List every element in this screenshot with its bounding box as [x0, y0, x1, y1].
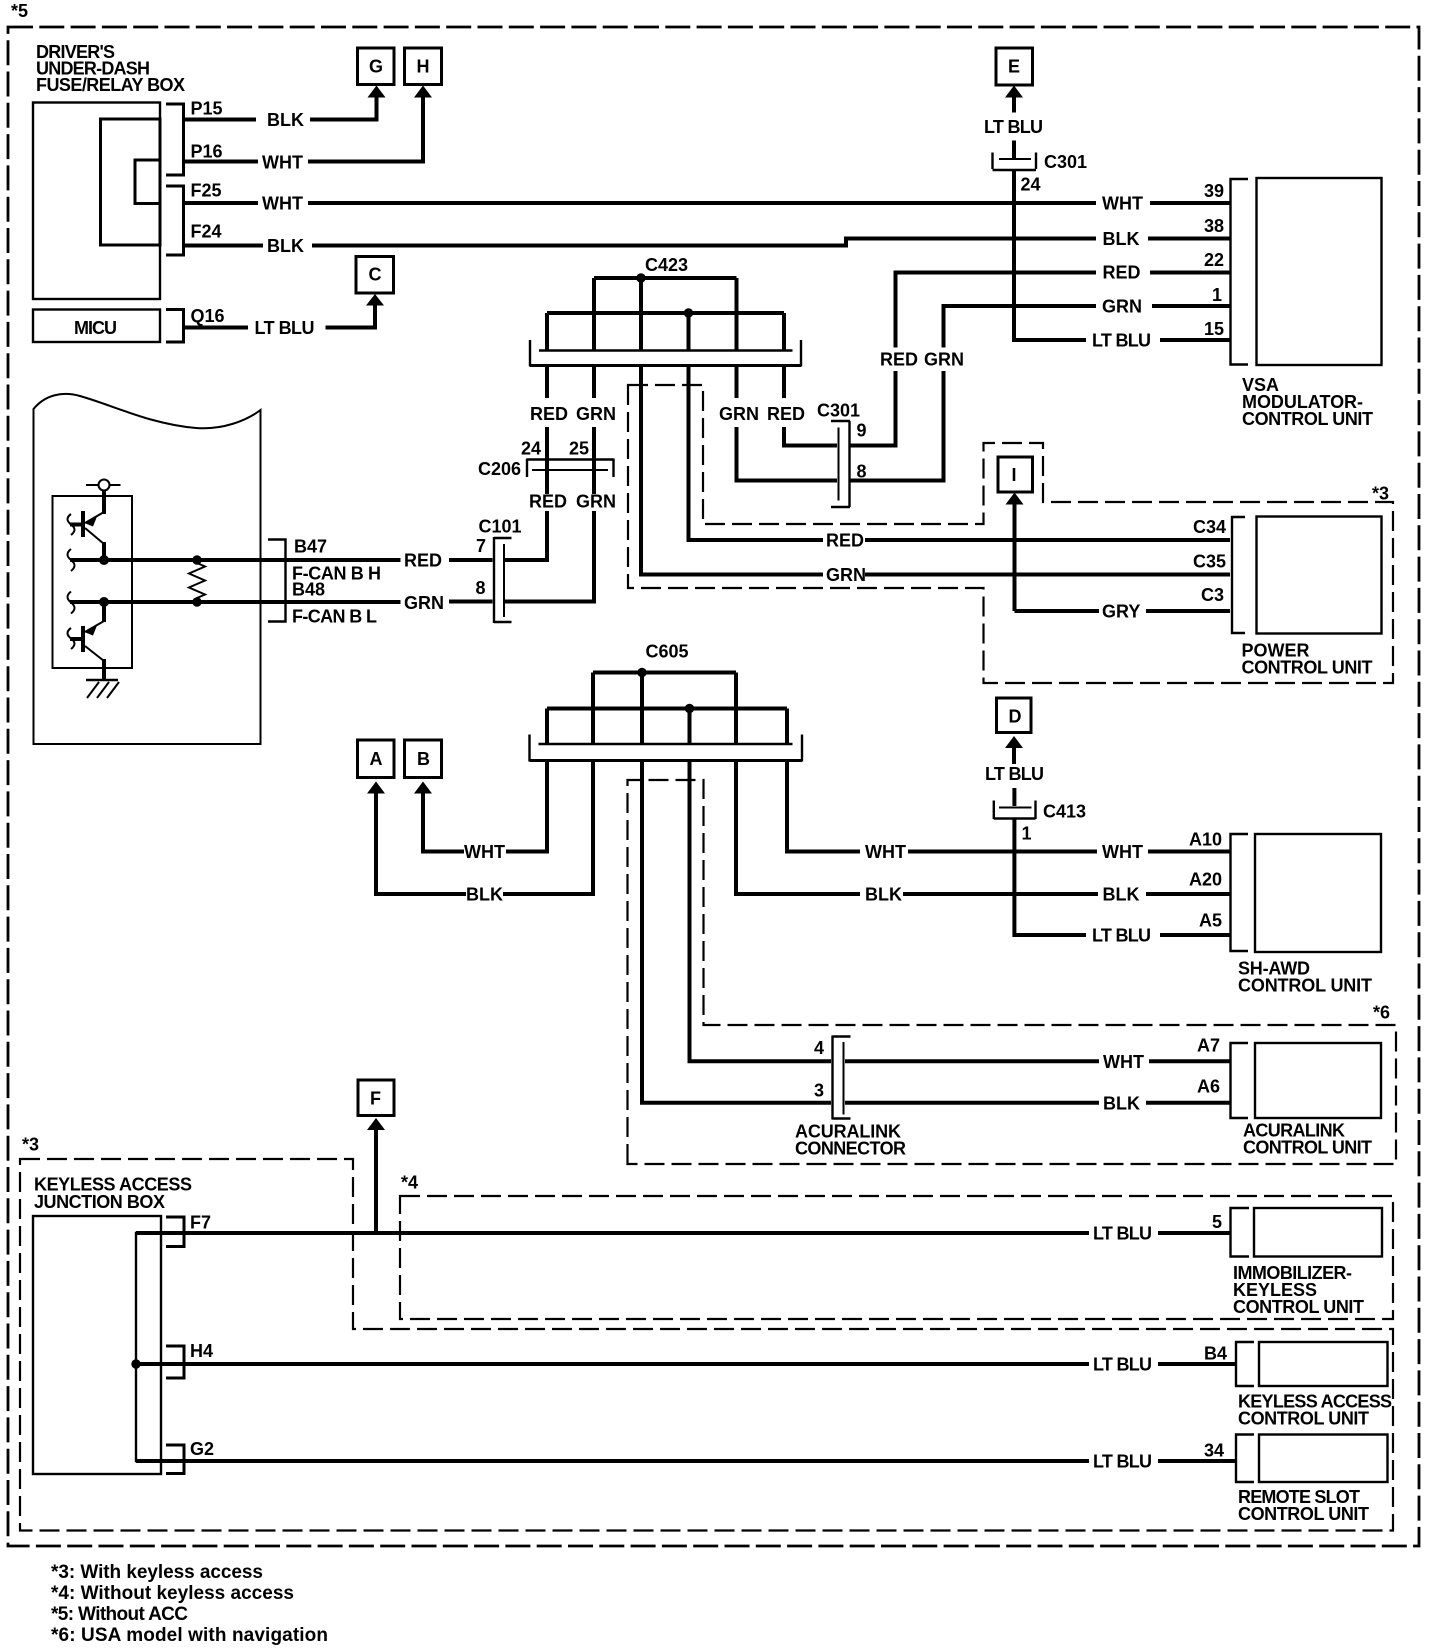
svg-text:CONNECTOR: CONNECTOR	[795, 1139, 906, 1159]
svg-text:RED: RED	[530, 404, 568, 424]
wire GRN from C206 to C101 pin 8	[505, 477, 616, 602]
ground	[86, 668, 119, 698]
svg-text:I: I	[1012, 465, 1017, 485]
arrowhead into G	[368, 86, 386, 98]
svg-text:RED: RED	[880, 350, 918, 370]
connector box A	[358, 740, 395, 778]
svg-text:5: 5	[1212, 1212, 1222, 1232]
svg-text:C3: C3	[1201, 585, 1224, 605]
inline connector C101	[476, 517, 522, 624]
wire BLK from C605 to acuralink connector pin 3	[642, 761, 1230, 1114]
junction dot C423 bus RED	[684, 308, 693, 317]
Q2 base lead	[70, 637, 83, 641]
acuralink control unit box	[1243, 1043, 1381, 1158]
svg-text:WHT: WHT	[1102, 842, 1143, 862]
dashed region *3 keyless access	[20, 1159, 1393, 1531]
immobilizer connector bracket	[1231, 1208, 1250, 1257]
svg-text:C206: C206	[478, 459, 521, 479]
acuralink connector symbol	[814, 1036, 851, 1120]
svg-text:15: 15	[1204, 319, 1224, 339]
wire C423 pin 24 RED down to C206	[530, 367, 568, 495]
svg-text:F25: F25	[191, 181, 222, 201]
svg-text:F7: F7	[190, 1213, 211, 1233]
svg-text:GRN: GRN	[576, 404, 616, 424]
svg-text:LT BLU: LT BLU	[984, 117, 1043, 137]
svg-text:A5: A5	[1199, 911, 1222, 931]
svg-text:24: 24	[1021, 175, 1041, 195]
svg-text:24: 24	[521, 439, 541, 459]
connector box I	[998, 457, 1033, 492]
wire LT BLU G2 to remote slot control unit 34	[136, 1452, 1236, 1472]
svg-text:C301: C301	[817, 401, 860, 421]
svg-text:A: A	[370, 749, 383, 769]
svg-text:WHT: WHT	[464, 842, 505, 862]
svg-text:RED: RED	[529, 492, 567, 512]
svg-text:F: F	[370, 1089, 381, 1109]
svg-text:1: 1	[1212, 285, 1222, 305]
torn-wire squiggle at F-CAN B L	[68, 592, 75, 614]
svg-text:*4: Without keyless access: *4: Without keyless access	[51, 1583, 294, 1604]
connector box H	[405, 48, 442, 85]
connector box C	[356, 257, 394, 294]
svg-text:34: 34	[1204, 1441, 1224, 1461]
svg-text:C101: C101	[479, 517, 522, 537]
connector bracket H4	[166, 1346, 184, 1378]
torn-wire squiggle at Q2 base	[68, 628, 75, 649]
connector bracket F7	[166, 1217, 184, 1247]
inline connector C413	[994, 801, 1086, 844]
wire Q16 LT BLU to C	[185, 306, 375, 339]
junction box inner bus	[136, 1233, 161, 1461]
wire C423 pin RED down to C301 pin 9	[767, 367, 837, 446]
svg-text:GRN: GRN	[826, 565, 866, 585]
MICU box	[33, 310, 160, 343]
DRIVER'S UNDER-DASH FUSE/RELAY BOX label	[36, 42, 185, 95]
svg-text:4: 4	[814, 1038, 824, 1058]
wire F-CAN B L inside module	[70, 600, 401, 604]
C605 bus upper	[593, 671, 736, 675]
svg-text:E: E	[1008, 57, 1020, 77]
connector box E	[996, 48, 1033, 85]
wire WHT from C605 to SH-AWD A10	[787, 761, 1230, 863]
termination resistor	[189, 560, 205, 602]
svg-text:D: D	[1009, 707, 1022, 727]
junction dot at Q2 collector	[99, 597, 109, 607]
junction dot on inner bus (H4)	[131, 1359, 140, 1368]
wire C423 pin GRN down to C301 pin 8	[719, 367, 837, 481]
keyless access junction box outline	[33, 1216, 161, 1474]
keyless access control unit box	[1238, 1342, 1392, 1429]
fuse/relay box outline	[33, 103, 160, 300]
wire LT BLU F7 to immobilizer pin 5	[136, 1224, 1230, 1244]
wire BLK from C605 to A	[376, 761, 593, 905]
svg-text:CONTROL UNIT: CONTROL UNIT	[1243, 1138, 1372, 1158]
VSA modulator-control unit box	[1242, 178, 1382, 429]
svg-text:Q16: Q16	[191, 306, 225, 326]
supply terminal circle	[86, 480, 121, 491]
junction dot resistor bottom	[192, 597, 201, 606]
svg-text:BLK: BLK	[865, 885, 902, 905]
svg-text:WHT: WHT	[1103, 1052, 1144, 1072]
inline connector C301 (pin 24)	[993, 152, 1088, 195]
remote slot control unit connector bracket	[1236, 1435, 1254, 1483]
svg-text:CONTROL UNIT: CONTROL UNIT	[1233, 1297, 1364, 1317]
wire P16 WHT to H	[185, 97, 423, 173]
svg-text:9: 9	[857, 421, 867, 441]
wire RED from C206 to C101 pin 7	[505, 477, 567, 560]
svg-text:LT BLU: LT BLU	[1093, 1355, 1152, 1375]
svg-text:WHT: WHT	[262, 194, 303, 214]
svg-text:C: C	[369, 265, 382, 285]
svg-text:RED: RED	[404, 551, 442, 571]
wire LT BLU from C301 pin 24 up to E	[984, 97, 1230, 340]
svg-text:JUNCTION BOX: JUNCTION BOX	[34, 1192, 165, 1212]
svg-text:C35: C35	[1193, 552, 1226, 572]
svg-text:LT BLU: LT BLU	[985, 764, 1044, 784]
connector box D	[997, 698, 1032, 733]
svg-text:*5: *5	[11, 1, 28, 21]
svg-text:BLK: BLK	[1103, 885, 1140, 905]
connector C423 body	[530, 340, 801, 367]
C423 pin wires into connector	[547, 278, 784, 351]
svg-text:*3: *3	[1372, 484, 1389, 504]
connector C605 body	[530, 735, 803, 762]
transistor Q2 (lower)	[83, 602, 104, 668]
wire label GRN on F-CAN B L	[404, 593, 493, 613]
torn-wire squiggle at Q1 base	[68, 514, 75, 535]
svg-text:H4: H4	[190, 1341, 213, 1361]
junction dot C605 bus lower	[685, 704, 694, 713]
wire WHT from C605 to B	[423, 761, 547, 863]
Q1 base lead	[70, 523, 83, 527]
svg-text:GRN: GRN	[404, 593, 444, 613]
acuralink control unit connector bracket	[1231, 1043, 1249, 1118]
transistor Q1 (upper)	[83, 491, 104, 561]
SH-AWD control unit box	[1238, 834, 1381, 996]
power control unit connector bracket	[1232, 517, 1245, 633]
connector box G	[358, 48, 395, 85]
wire F25 WHT to VSA pin 39	[185, 194, 1230, 214]
svg-text:RED: RED	[1103, 263, 1141, 283]
wire WHT from C605 to acuralink connector pin 4	[690, 761, 1231, 1073]
wire F24 BLK to VSA pin 38	[185, 236, 1230, 256]
wire GRN from C301 pin 8 to VSA pin 1	[850, 306, 1230, 481]
svg-text:A20: A20	[1189, 870, 1222, 890]
KEYLESS ACCESS JUNCTION BOX label	[34, 1175, 192, 1213]
wire from F7 line up to F	[374, 1130, 378, 1233]
wire C423 pin 25 GRN down to C206	[576, 367, 616, 495]
svg-text:8: 8	[857, 462, 867, 482]
inline connector C301 (pins 9/8)	[817, 401, 867, 508]
svg-text:39: 39	[1204, 181, 1224, 201]
svg-text:*6: *6	[1373, 1003, 1390, 1023]
torn-wire squiggle at F-CAN B H	[68, 549, 75, 571]
svg-text:WHT: WHT	[865, 842, 906, 862]
svg-text:3: 3	[814, 1081, 824, 1101]
C423 bus RED (lower)	[547, 311, 784, 315]
acuralink connector label	[795, 1122, 906, 1159]
svg-text:*3: *3	[22, 1135, 39, 1155]
svg-text:C423: C423	[645, 255, 688, 275]
dashed region *3 power control unit (with keyless access)	[628, 385, 1393, 683]
wire label RED on F-CAN B H	[404, 551, 493, 571]
connector bracket G2	[166, 1445, 184, 1474]
C605 pin wires into connector	[547, 673, 787, 746]
svg-text:*6: USA model with navigation: *6: USA model with navigation	[51, 1625, 328, 1646]
dashed region *6 acuralink (corridor)	[628, 780, 1397, 1164]
svg-text:GRN: GRN	[576, 492, 616, 512]
dashed region *4 without keyless access	[400, 1196, 1393, 1319]
svg-text:*5: Without ACC: *5: Without ACC	[51, 1604, 188, 1625]
wire BLK from C605 to SH-AWD A20	[736, 761, 1230, 905]
connector bracket P15/P16	[166, 104, 184, 175]
svg-text:RED: RED	[767, 404, 805, 424]
svg-text:C413: C413	[1043, 802, 1086, 822]
wire F-CAN B H inside module	[70, 558, 401, 562]
svg-text:25: 25	[569, 439, 589, 459]
svg-text:22: 22	[1204, 250, 1224, 270]
wire LT BLU H4 to keyless access control unit B4	[136, 1355, 1236, 1375]
svg-text:BLK: BLK	[267, 236, 304, 256]
svg-text:BLK: BLK	[267, 110, 304, 130]
svg-text:P16: P16	[191, 142, 223, 162]
keyless access control unit connector bracket	[1236, 1342, 1254, 1386]
arrowhead into B	[414, 782, 432, 794]
svg-text:CONTROL UNIT: CONTROL UNIT	[1238, 976, 1372, 996]
svg-text:B4: B4	[1204, 1344, 1227, 1364]
svg-text:LT BLU: LT BLU	[1092, 926, 1151, 946]
connector box B	[405, 740, 442, 778]
arrowhead into E	[1005, 86, 1023, 98]
svg-text:FUSE/RELAY BOX: FUSE/RELAY BOX	[36, 75, 185, 95]
svg-text:BLK: BLK	[466, 885, 503, 905]
junction dot at Q1 emitter	[99, 555, 109, 565]
wire RED from C301 pin 9 to VSA pin 22	[850, 273, 1230, 446]
svg-text:B47: B47	[294, 537, 327, 557]
svg-text:A10: A10	[1189, 830, 1222, 850]
connector bracket Q16	[166, 310, 184, 343]
svg-text:CONTROL UNIT: CONTROL UNIT	[1242, 409, 1373, 429]
svg-text:B48: B48	[292, 580, 325, 600]
junction dot C423 bus GRN	[636, 273, 645, 282]
svg-text:WHT: WHT	[1102, 194, 1143, 214]
svg-text:A7: A7	[1197, 1036, 1220, 1056]
svg-text:WHT: WHT	[262, 153, 303, 173]
SH-AWD connector bracket	[1231, 834, 1249, 951]
svg-text:GRN: GRN	[924, 350, 964, 370]
svg-text:GRN: GRN	[719, 404, 759, 424]
svg-text:G: G	[369, 57, 383, 77]
remote slot control unit box	[1238, 1435, 1388, 1525]
arrowhead into C	[366, 294, 384, 306]
wire GRN from C423 to power control unit C35	[641, 367, 1230, 586]
fuse box inner block 1	[101, 119, 161, 245]
arrowhead into F	[367, 1118, 385, 1130]
CAN driver circuit inner box	[53, 496, 133, 668]
svg-text:CONTROL UNIT: CONTROL UNIT	[1238, 1504, 1369, 1524]
svg-text:F-CAN B L: F-CAN B L	[292, 607, 377, 627]
svg-text:P15: P15	[191, 99, 223, 119]
svg-text:CONTROL UNIT: CONTROL UNIT	[1238, 1409, 1369, 1429]
C423 bus GRN (upper)	[594, 276, 737, 280]
svg-text:BLK: BLK	[1103, 1094, 1140, 1114]
svg-text:38: 38	[1204, 216, 1224, 236]
svg-text:7: 7	[476, 536, 486, 556]
immobilizer-keyless control unit box	[1233, 1208, 1382, 1317]
wire GRY from power control unit C3 to I	[1015, 505, 1231, 622]
junction dot resistor top	[192, 555, 201, 564]
module connector bracket B47/B48	[268, 540, 286, 622]
fuse box inner block 2	[135, 160, 160, 204]
VSA connector bracket	[1231, 179, 1249, 365]
arrowhead into D	[1005, 736, 1023, 748]
svg-text:B: B	[417, 749, 430, 769]
inline connector C206	[478, 459, 614, 480]
wire P15 BLK to G	[185, 97, 377, 130]
arrowhead into A	[367, 782, 385, 794]
C605 bus lower	[547, 707, 787, 711]
arrowhead into H	[414, 86, 432, 98]
svg-text:GRN: GRN	[1102, 297, 1142, 317]
svg-text:LT BLU: LT BLU	[1092, 331, 1151, 351]
svg-text:BLK: BLK	[1103, 229, 1140, 249]
svg-text:*4: *4	[401, 1173, 418, 1193]
svg-text:C605: C605	[646, 642, 689, 662]
connector box F	[358, 1080, 394, 1116]
svg-text:LT BLU: LT BLU	[255, 318, 315, 338]
svg-text:LT BLU: LT BLU	[1093, 1224, 1152, 1244]
svg-text:GRY: GRY	[1102, 602, 1140, 622]
svg-text:G2: G2	[190, 1439, 214, 1459]
svg-text:A6: A6	[1197, 1077, 1220, 1097]
svg-text:RED: RED	[826, 531, 864, 551]
svg-text:C34: C34	[1193, 517, 1226, 537]
svg-text:MICU: MICU	[74, 318, 117, 338]
svg-text:LT BLU: LT BLU	[1093, 1452, 1152, 1472]
wire LT BLU from C413 pin 1 up to D	[985, 748, 1230, 935]
power control unit box	[1242, 517, 1382, 678]
svg-text:8: 8	[476, 578, 486, 598]
svg-text:1: 1	[1022, 824, 1032, 844]
control module box with torn (wavy) top edge	[34, 394, 261, 744]
junction dot C605 bus upper	[637, 668, 646, 677]
svg-text:H: H	[417, 57, 430, 77]
wire RED from C423 to power control unit C34	[689, 367, 1231, 551]
svg-text:*3: With keyless access: *3: With keyless access	[51, 1562, 263, 1583]
svg-text:C301: C301	[1044, 152, 1087, 172]
arrowhead into I	[1006, 493, 1024, 505]
svg-text:CONTROL UNIT: CONTROL UNIT	[1242, 658, 1373, 678]
connector bracket F25/F24	[166, 186, 184, 255]
svg-text:F24: F24	[191, 222, 222, 242]
